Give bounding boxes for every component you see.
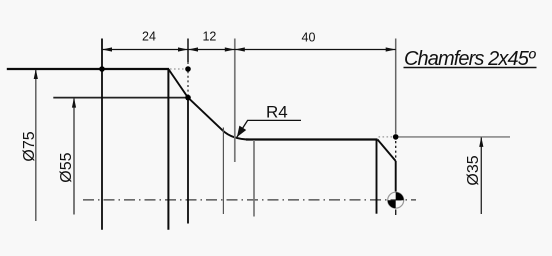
svg-text:12: 12	[202, 30, 216, 44]
arrow 40 right	[386, 47, 396, 51]
svg-text:24: 24	[142, 30, 156, 44]
svg-text:Ø75: Ø75	[21, 131, 38, 161]
wire: gray extension right of corner (for Ø35)	[399, 136, 511, 138]
wire: Ø35 top surface	[246, 138, 378, 140]
node dot left top corner	[99, 66, 105, 72]
arrow Ø75 up	[34, 69, 38, 79]
dotted theoretical corner line left	[170, 68, 185, 70]
leader R4	[237, 120, 301, 137]
node dot theoretical corner left	[185, 66, 191, 72]
wire: dashed segment below right corner dot	[395, 141, 397, 160]
wire: left face vertical	[101, 39, 103, 230]
svg-text:Ø35: Ø35	[465, 155, 482, 185]
svg-text:Ø55: Ø55	[58, 152, 75, 182]
center drill symbol	[388, 192, 404, 208]
dimension line Ø35	[480, 138, 482, 215]
arrow 12 right	[225, 47, 235, 51]
arrow 24 left	[102, 47, 112, 51]
wire: projection from fillet end	[253, 140, 255, 217]
svg-text:Chamfers 2x45º: Chamfers 2x45º	[404, 48, 537, 70]
wire: right face projection vertical	[376, 140, 378, 214]
centerline	[83, 199, 416, 201]
fillet R4 curve	[223, 130, 251, 139]
note underline	[404, 67, 537, 69]
arrow R4	[237, 126, 246, 138]
arrow Ø55 up	[72, 98, 76, 108]
wire: gray extension above right corner	[395, 39, 397, 134]
wire: right face vertical below chamfer	[395, 161, 397, 192]
wire: extension+projection vertical at chamfer end	[187, 39, 189, 63]
wire: dash below center symbol	[395, 210, 397, 216]
wire: step face vertical at chamfer start	[167, 69, 169, 230]
arrow 12 left	[188, 47, 198, 51]
arrow Ø35 up	[479, 137, 483, 147]
dotted theoretical corner line right	[379, 136, 393, 138]
svg-text:R4: R4	[266, 103, 288, 122]
wire: Ø55 level line with left extension	[53, 97, 189, 99]
node dot chamfer end	[185, 95, 191, 101]
wire: projection from taper end	[222, 128, 224, 215]
node dot theoretical corner right	[393, 134, 399, 140]
wire: top surface Ø75 with left extension	[7, 68, 169, 70]
dimension line Ø75	[35, 70, 37, 221]
wire: chamfer edge (2x45) left	[168, 69, 188, 98]
arrow 24 right	[178, 47, 188, 51]
wire: gray extension line for 12/40	[234, 39, 236, 163]
dimension line Ø55	[73, 99, 75, 215]
dimension line top	[102, 49, 396, 51]
svg-text:40: 40	[302, 31, 316, 45]
arrow 40 left	[235, 47, 245, 51]
wire: taper edge	[188, 98, 223, 131]
wire: right end chamfer edge	[378, 140, 396, 162]
